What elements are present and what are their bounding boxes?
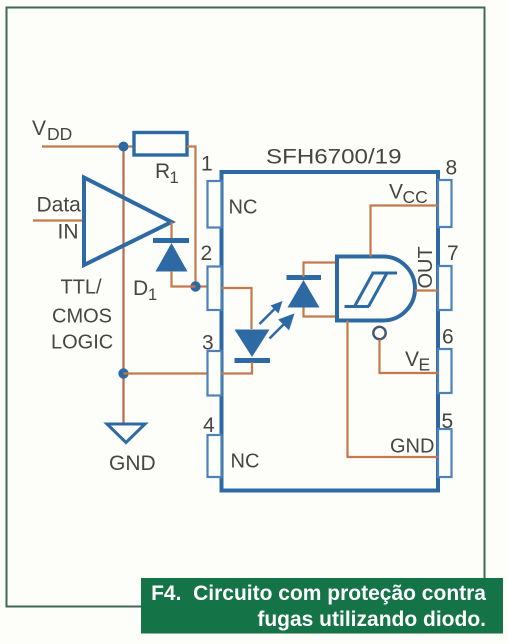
svg-text:1: 1	[201, 153, 213, 176]
op-amp buffer TTL/CMOS driver triangle	[84, 178, 172, 266]
wire pin2 to emitter LED anode	[222, 288, 252, 329]
node VDD junction	[119, 142, 129, 152]
LED emitter diode (pointing down)	[235, 330, 270, 358]
wire photodiode cathode to detector	[304, 263, 337, 278]
svg-text:GND: GND	[390, 436, 434, 458]
wire photodiode anode to detector	[304, 308, 337, 317]
pin 5 box	[438, 429, 452, 477]
svg-text:TTL/: TTL/	[61, 277, 103, 299]
svg-text:D: D	[133, 277, 148, 300]
svg-text:GND: GND	[109, 452, 156, 475]
IC body SFH6700/19	[222, 172, 439, 491]
svg-text:SFH6700/19: SFH6700/19	[266, 146, 402, 169]
svg-text:7: 7	[447, 242, 459, 265]
node D1/pin2 junction	[190, 281, 200, 291]
schmitt trigger hysteresis symbol	[345, 273, 398, 307]
svg-text:V: V	[32, 117, 46, 140]
svg-text:8: 8	[446, 157, 458, 180]
svg-text:LOGIC: LOGIC	[51, 332, 113, 354]
pin 6 box	[438, 349, 452, 393]
wire VDD horizontal	[42, 145, 134, 147]
svg-text:6: 6	[442, 326, 454, 349]
light arrow 2	[270, 316, 293, 339]
ground symbol	[107, 424, 145, 443]
enable bubble VE	[373, 327, 385, 339]
pin 4 box	[208, 435, 222, 477]
svg-text:V: V	[405, 348, 419, 371]
svg-text:Data: Data	[37, 194, 82, 217]
detector amplifier U1 (D shape)	[337, 257, 415, 321]
wire triangle apex to D1	[170, 222, 172, 239]
wire VE to pin6	[380, 340, 439, 374]
wire R1 right down to pin2 junction	[187, 147, 208, 287]
caption box	[141, 578, 503, 634]
pin 1 box	[208, 181, 222, 228]
pin 8 box	[438, 180, 452, 227]
wire GND from detector bottom to pin5	[348, 321, 439, 458]
svg-text:IN: IN	[58, 221, 79, 244]
svg-text:fugas utilizando diodo.: fugas utilizando diodo.	[257, 608, 486, 631]
wire Data IN input	[33, 219, 83, 221]
pin 3 box	[208, 351, 222, 396]
svg-text:3: 3	[202, 332, 214, 355]
wire junction to pin3	[124, 372, 208, 374]
svg-text:F4. Circuito com proteção con: F4. Circuito com proteção contra	[151, 582, 486, 605]
node GND-row junction	[118, 368, 128, 378]
svg-text:E: E	[419, 355, 431, 375]
svg-text:NC: NC	[229, 197, 258, 219]
pin 7 box	[438, 266, 452, 310]
svg-text:4: 4	[203, 414, 215, 437]
resistor R1	[134, 133, 187, 156]
wire vertical VDD-to-GND rail	[122, 147, 124, 425]
wire D1 anode to junction	[172, 271, 196, 287]
svg-text:1: 1	[170, 169, 179, 187]
svg-text:1: 1	[148, 286, 157, 304]
svg-text:5: 5	[442, 410, 454, 433]
svg-text:V: V	[389, 181, 403, 204]
wire OUT from detector to pin7	[415, 289, 438, 291]
svg-text:CC: CC	[403, 187, 428, 207]
wire emitter LED cathode to pin3	[222, 362, 253, 374]
svg-text:DD: DD	[47, 124, 72, 144]
svg-text:NC: NC	[231, 451, 260, 473]
svg-text:2: 2	[201, 242, 213, 265]
wire VCC from pin8 to detector top	[371, 206, 439, 257]
diode D1	[153, 238, 189, 243]
pin 2 box	[208, 267, 222, 311]
svg-text:OUT: OUT	[415, 246, 437, 288]
svg-text:CMOS: CMOS	[52, 306, 112, 328]
photodiode (pointing up)	[287, 275, 322, 280]
light arrow 1	[260, 301, 283, 324]
svg-text:R: R	[155, 160, 170, 183]
